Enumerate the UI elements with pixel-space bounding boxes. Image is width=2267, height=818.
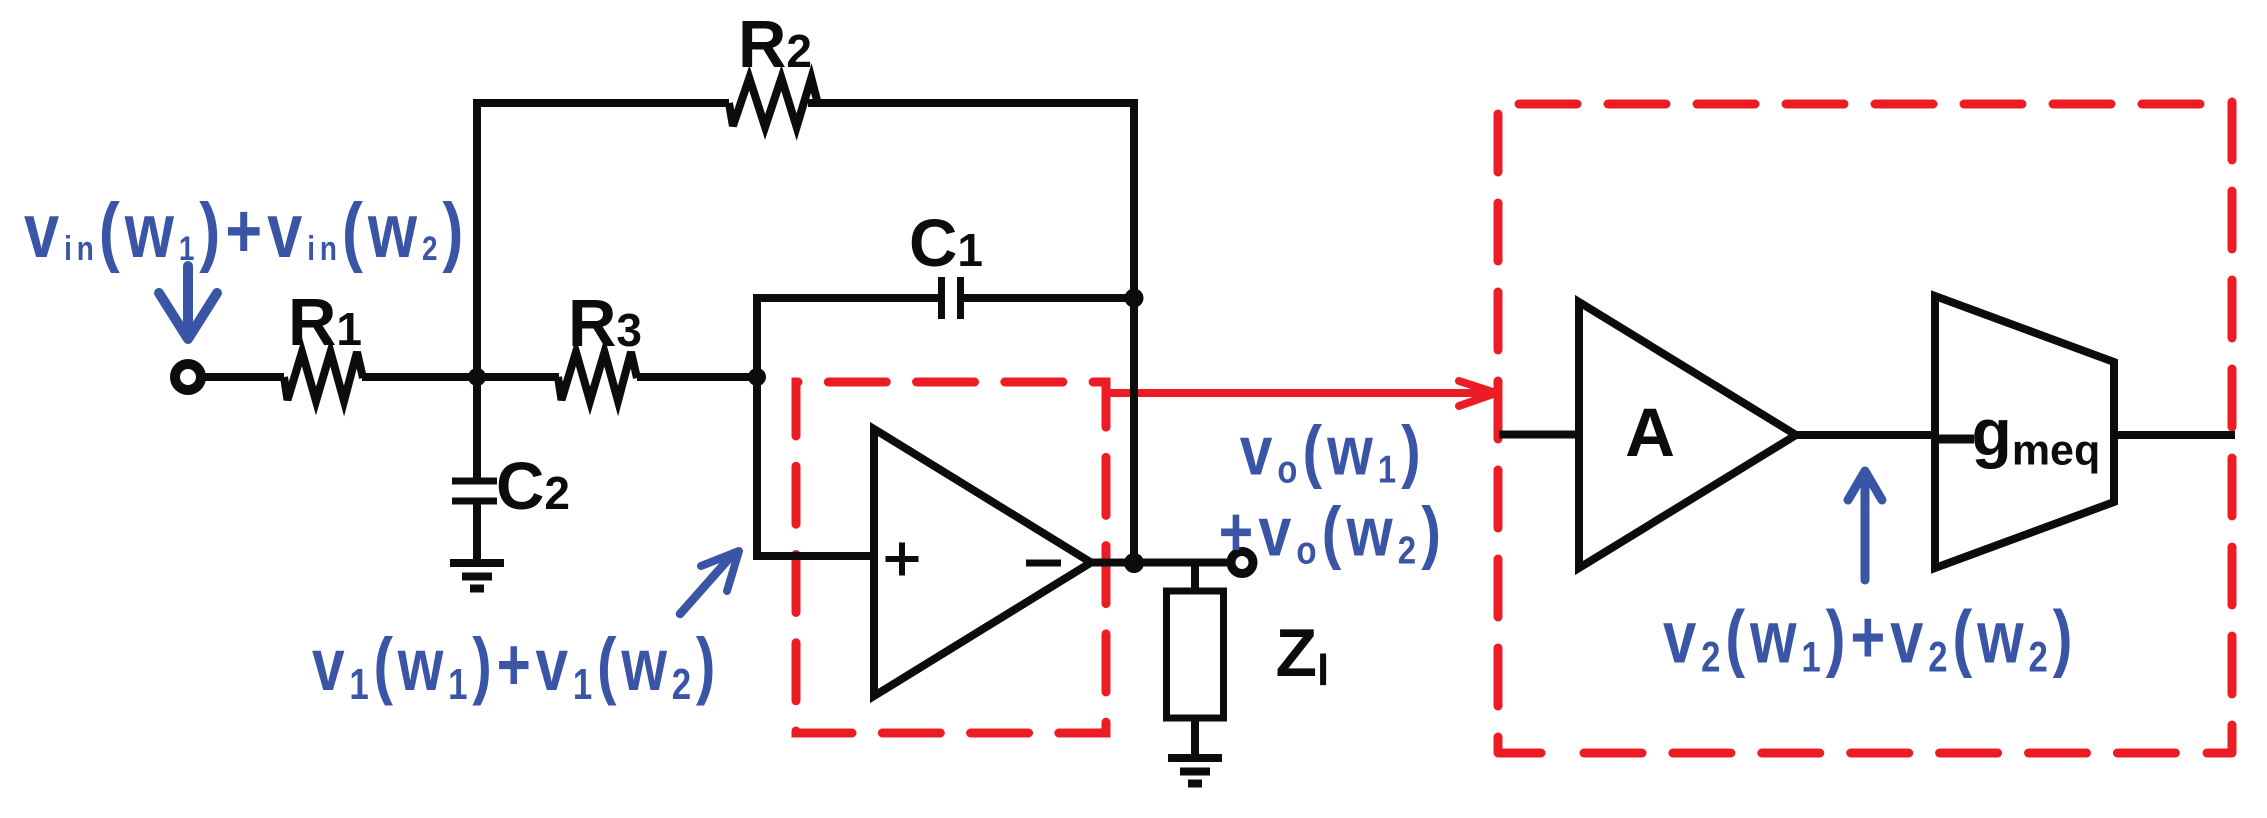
svg-text:v2​(w1​)+v2​(w2​): v2​(w1​)+v2​(w2​) [1663, 596, 2077, 681]
svg-text:v1​(w1​)+v1​(w2​): v1​(w1​)+v1​(w2​) [312, 625, 720, 709]
svg-text:A: A [1625, 394, 1675, 471]
